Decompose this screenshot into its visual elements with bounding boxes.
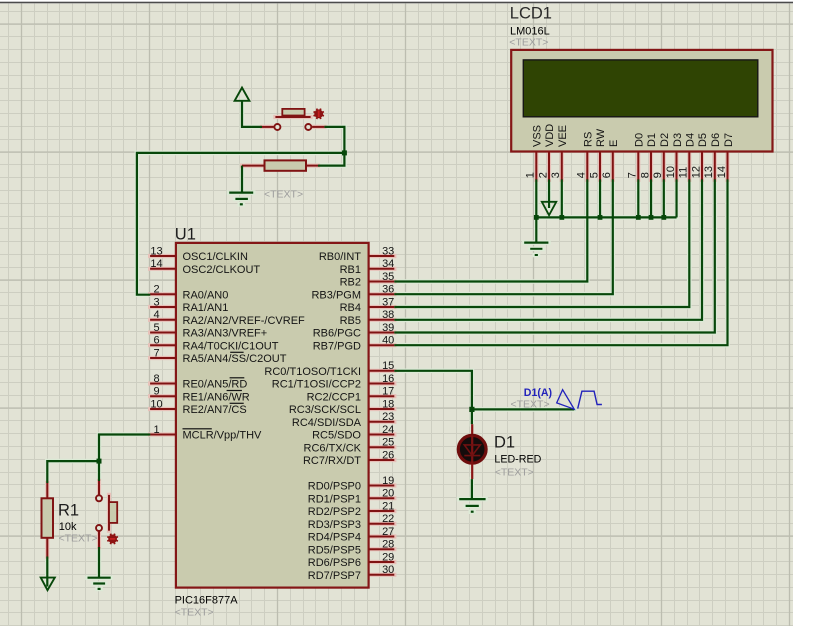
LCD pin 6 (E) stub [612, 152, 614, 180]
LCD pin 12 (D5) stub [701, 152, 703, 180]
wire: ground bus under LCD [536, 216, 676, 218]
svg-text:10: 10 [665, 166, 677, 178]
svg-text:RA5/AN4/SS/C2OUT: RA5/AN4/SS/C2OUT [183, 353, 287, 365]
push button (reset) red actuator dot [108, 535, 117, 544]
junction bus/D2 [661, 215, 666, 220]
svg-text:12: 12 [690, 166, 702, 178]
U1 pin 30 stub (right, RD7/PSP7) [369, 574, 395, 576]
svg-text:1: 1 [153, 424, 159, 436]
U1 pin 25 stub (right, RC6/TX/CK) [369, 446, 395, 448]
svg-text:RD7/PSP7: RD7/PSP7 [308, 570, 361, 582]
ground under top resistor [229, 192, 253, 194]
svg-text:RB6/PGC: RB6/PGC [313, 328, 361, 340]
wire: RB3 to LCD E [394, 179, 613, 294]
U1 pin 16 stub (right, RC1/T1OSI/CCP2) [369, 383, 395, 385]
svg-text:RA2/AN2/VREF-/CVREF: RA2/AN2/VREF-/CVREF [183, 315, 306, 327]
junction bus/D1 [649, 215, 654, 220]
voltage probe needle [557, 390, 575, 410]
svg-text:RE2/AN7/CS: RE2/AN7/CS [183, 404, 247, 416]
power terminal +V (top) [235, 88, 250, 101]
wire: node down to resistor right [318, 153, 344, 166]
svg-text:26: 26 [382, 449, 394, 461]
U1 pin 2 stub (left, RA0/AN0) [150, 293, 175, 295]
U1 pin 35 stub (right, RB2) [369, 281, 395, 283]
svg-text:14: 14 [150, 258, 162, 270]
svg-text:OSC2/CLKOUT: OSC2/CLKOUT [183, 264, 261, 276]
junction bus/VEE [559, 215, 564, 220]
svg-text:15: 15 [382, 360, 394, 372]
svg-text:RB7/PGD: RB7/PGD [313, 340, 361, 352]
svg-text:6: 6 [153, 335, 159, 347]
junction LED node [469, 407, 474, 412]
svg-text:13: 13 [703, 166, 715, 178]
U1 pin 36 stub (right, RB3/PGM) [369, 293, 395, 295]
LCD pin 14 (D7) stub [727, 152, 729, 180]
svg-text:9: 9 [652, 172, 664, 178]
wire: node to probe [472, 408, 574, 410]
U1 pin 15 stub (right, RC0/T1OSO/T1CKI) [369, 370, 395, 372]
svg-text:RS: RS [583, 132, 595, 147]
svg-text:RA3/AN3/VREF+: RA3/AN3/VREF+ [183, 328, 268, 340]
LED D1 anode lead [471, 424, 473, 436]
U1 pin 6 stub (left, RA4/T0CKI/C1OUT) [150, 344, 175, 346]
wire: LCD D1 down to bus [650, 179, 652, 217]
svg-text:3: 3 [550, 172, 562, 178]
U1 pin 5 stub (left, RA3/AN3/VREF+) [150, 332, 175, 334]
ground under button2 [88, 577, 111, 579]
svg-text:MCLR/Vpp/THV: MCLR/Vpp/THV [183, 430, 263, 442]
U1 pin 39 stub (right, RB6/PGC) [369, 332, 395, 334]
svg-text:RD2/PSP2: RD2/PSP2 [308, 506, 361, 518]
svg-text:RA0/AN0: RA0/AN0 [183, 289, 229, 301]
U1 pin 4 stub (left, RA2/AN2/VREF-/CVREF) [150, 319, 175, 321]
svg-text:10: 10 [150, 398, 162, 410]
svg-text:D4: D4 [685, 133, 697, 147]
svg-text:25: 25 [382, 437, 394, 449]
LED D1 internal symbol [471, 436, 473, 464]
svg-text:2: 2 [537, 172, 549, 178]
svg-text:RA1/AN1: RA1/AN1 [183, 302, 229, 314]
svg-text:RC3/SCK/SCL: RC3/SCK/SCL [289, 404, 361, 416]
U1 pin 23 stub (right, RC4/SDI/SDA) [369, 421, 395, 423]
wire: LED to ground [471, 479, 473, 498]
LED D1 body [458, 435, 486, 463]
top sheet edge [0, 2, 793, 4]
wire glow layer [47, 100, 727, 589]
wire: RC0 to LED node [394, 371, 472, 410]
wire: node across to RA0 riser [137, 153, 345, 295]
U1 pin 33 stub (right, RB0/INT) [369, 255, 395, 257]
svg-text:<TEXT>: <TEXT> [495, 467, 534, 479]
svg-text:D7: D7 [723, 133, 735, 147]
resistor (top) body [265, 160, 307, 170]
button2 bottom pin stub [98, 531, 100, 547]
wire: LCD D0 down to bus [637, 179, 639, 217]
wire: RB7 to LCD D7 [394, 179, 727, 345]
svg-text:RW: RW [595, 128, 607, 147]
wire: button2 to ground [98, 547, 100, 577]
svg-text:RC1/T1OSI/CCP2: RC1/T1OSI/CCP2 [272, 379, 361, 391]
svg-text:RE0/AN5/RD: RE0/AN5/RD [183, 379, 248, 391]
U1 pin 17 stub (right, RC2/CCP1) [369, 395, 395, 397]
U1 pin 28 stub (right, RD5/PSP5) [369, 548, 395, 550]
wire: LCD VSS down to ground bus [535, 179, 537, 217]
svg-text:34: 34 [382, 258, 394, 270]
svg-text:VEE: VEE [557, 125, 569, 147]
svg-text:RB4: RB4 [340, 302, 361, 314]
junction bus/VSS [534, 215, 539, 220]
svg-text:VSS: VSS [532, 125, 544, 147]
svg-text:RD6/PSP6: RD6/PSP6 [308, 557, 361, 569]
button1 left pin stub [262, 126, 274, 128]
svg-text:RB3/PGM: RB3/PGM [311, 289, 361, 301]
U1 pin 34 stub (right, RB1) [369, 268, 395, 270]
ground terminal (arrow) under R1 [41, 578, 55, 591]
push button (reset) bottom contact [96, 525, 102, 531]
svg-text:17: 17 [382, 386, 394, 398]
svg-text:2: 2 [153, 284, 159, 296]
push button (top) actuator bar [275, 116, 310, 118]
svg-text:LED-RED: LED-RED [494, 453, 541, 465]
junction node (344,153) [342, 150, 347, 155]
svg-text:23: 23 [382, 411, 394, 423]
svg-text:D0: D0 [634, 133, 646, 147]
overline for CS [230, 403, 244, 404]
wire: node down to button2 [98, 461, 100, 481]
svg-text:U1: U1 [175, 225, 196, 243]
overline for RD [230, 377, 245, 378]
button1 right pin stub [312, 126, 324, 128]
overline for SS [230, 352, 243, 353]
junction bus/RW [598, 215, 603, 220]
wire: LCD VEE down to bus [561, 179, 563, 217]
svg-text:<TEXT>: <TEXT> [509, 36, 548, 48]
wire: RB2 to LCD RS [394, 179, 587, 281]
LCD pin 2 (VDD) stub [548, 152, 550, 180]
svg-text:9: 9 [153, 386, 159, 398]
svg-text:RC2/CCP1: RC2/CCP1 [307, 391, 361, 403]
resistor (top) right lead [306, 165, 318, 167]
LCD pin 13 (D6) stub [714, 152, 716, 180]
svg-text:22: 22 [382, 513, 394, 525]
button2 top pin stub [98, 481, 100, 495]
LCD pin 8 (D1) stub [650, 152, 652, 180]
U1 pin 40 stub (right, RB7/PGD) [369, 344, 395, 346]
wire: R1 bottom to ground arrow [46, 557, 48, 587]
U1 pin 38 stub (right, RB5) [369, 319, 395, 321]
svg-text:38: 38 [382, 309, 394, 321]
U1 pin 24 stub (right, RC5/SDO) [369, 434, 395, 436]
svg-text:R1: R1 [58, 501, 79, 519]
svg-text:6: 6 [601, 172, 613, 178]
svg-text:RD5/PSP5: RD5/PSP5 [308, 545, 361, 557]
wire: LCD RW down to bus [599, 179, 601, 217]
LCD pin 4 (RS) stub [586, 152, 588, 180]
U1 pin 7 stub (left, RA5/AN4/SS/C2OUT) [150, 357, 175, 359]
wire: LCD D3 down to bus [675, 179, 677, 217]
svg-text:29: 29 [382, 551, 394, 563]
svg-text:3: 3 [153, 296, 159, 308]
svg-text:D3: D3 [672, 133, 684, 147]
svg-text:<TEXT>: <TEXT> [175, 607, 214, 619]
U1 pin 22 stub (right, RD3/PSP3) [369, 523, 395, 525]
U1 pin 20 stub (right, RD1/PSP1) [369, 497, 395, 499]
svg-text:28: 28 [382, 539, 394, 551]
svg-text:<TEXT>: <TEXT> [59, 533, 98, 545]
svg-text:D1: D1 [494, 433, 515, 451]
svg-text:5: 5 [588, 172, 600, 178]
U1 pin 8 stub (left, RE0/AN5/RD) [150, 383, 175, 385]
svg-text:<TEXT>: <TEXT> [511, 399, 550, 411]
svg-text:13: 13 [150, 245, 162, 257]
LCD pin 9 (D2) stub [663, 152, 665, 180]
push button (top) left contact [274, 124, 280, 130]
push button (top) right contact [305, 124, 311, 130]
wire: node left to R1 top [47, 461, 99, 483]
U1 pin 3 stub (left, RA1/AN1) [150, 306, 175, 308]
push button (reset) top contact [96, 495, 102, 501]
U1 pin 9 stub (left, RE1/AN6/WR) [150, 395, 175, 397]
svg-text:RB1: RB1 [340, 264, 361, 276]
U1 pin 21 stub (right, RD2/PSP2) [369, 510, 395, 512]
U1 pin 14 stub (left, OSC2/CLKOUT) [150, 268, 175, 270]
svg-text:40: 40 [382, 335, 394, 347]
junction MCLR node [97, 459, 102, 464]
svg-text:RD1/PSP1: RD1/PSP1 [308, 493, 361, 505]
svg-text:RB5: RB5 [340, 315, 361, 327]
svg-text:14: 14 [716, 166, 728, 178]
svg-text:RB2: RB2 [340, 277, 361, 289]
svg-text:VDD: VDD [544, 124, 556, 147]
push button (top) red actuator dot [314, 109, 323, 118]
overline for WR [227, 390, 242, 391]
wire: LCD VDD to power terminal [548, 179, 550, 208]
LCD display LCD1 body [511, 50, 772, 152]
power terminal (down) on VDD [542, 202, 557, 215]
wire: LCD D2 down to bus [663, 179, 665, 217]
svg-text:19: 19 [382, 475, 394, 487]
svg-text:30: 30 [382, 564, 394, 576]
pin glow layer [47, 117, 727, 575]
LCD pin 7 (D0) stub [637, 152, 639, 180]
svg-text:RB0/INT: RB0/INT [319, 251, 361, 263]
svg-text:LCD1: LCD1 [510, 5, 552, 23]
LCD pin 10 (D3) stub [676, 152, 678, 180]
microcontroller U1 body [176, 243, 369, 588]
svg-text:RA4/T0CKI/C1OUT: RA4/T0CKI/C1OUT [183, 340, 279, 352]
svg-text:8: 8 [153, 373, 159, 385]
svg-text:8: 8 [639, 172, 651, 178]
LED D1 cathode lead [471, 464, 473, 480]
svg-text:7: 7 [153, 347, 159, 359]
svg-text:RC0/T1OSO/T1CKI: RC0/T1OSO/T1CKI [264, 366, 361, 378]
wire: node down to LED anode [471, 409, 473, 424]
U1 pin 27 stub (right, RD4/PSP4) [369, 536, 395, 538]
svg-text:18: 18 [382, 398, 394, 410]
svg-text:37: 37 [382, 296, 394, 308]
svg-text:7: 7 [627, 172, 639, 178]
svg-text:PIC16F877A: PIC16F877A [175, 595, 239, 607]
LCD screen [523, 60, 758, 117]
resistor (top) left lead [242, 165, 265, 167]
wire: RB4 to LCD D4 [394, 179, 689, 307]
svg-text:1: 1 [525, 172, 537, 178]
push button (top) cap [282, 109, 304, 116]
svg-text:21: 21 [382, 500, 394, 512]
U1 pin 18 stub (right, RC3/SCK/SCL) [369, 408, 395, 410]
U1 pin 26 stub (right, RC7/RX/DT) [369, 459, 395, 461]
svg-text:4: 4 [576, 172, 588, 178]
U1 pin 10 stub (left, RE2/AN7/CS) [150, 408, 175, 410]
resistor R1 bottom lead [46, 538, 48, 557]
LCD pin 1 (VSS) stub [535, 152, 537, 180]
U1 pin 29 stub (right, RD6/PSP6) [369, 561, 395, 563]
svg-text:E: E [608, 140, 620, 147]
svg-text:D1: D1 [646, 133, 658, 147]
svg-text:4: 4 [153, 309, 159, 321]
wire: button right down to node [324, 127, 344, 153]
svg-text:35: 35 [382, 271, 394, 283]
ground under LCD bus [535, 217, 537, 242]
U1 pin 37 stub (right, RB4) [369, 306, 395, 308]
ground under LED [459, 498, 485, 500]
push button (reset) actuator bar [108, 495, 110, 531]
U1 pin 13 stub (left, OSC1/CLKIN) [150, 255, 175, 257]
wire: power to button left [242, 100, 262, 127]
wire: MCLR net [99, 435, 150, 462]
LCD pin 5 (RW) stub [599, 152, 601, 180]
svg-text:11: 11 [678, 167, 690, 178]
svg-text:OSC1/CLKIN: OSC1/CLKIN [183, 251, 248, 263]
push button (reset) cap [109, 502, 117, 523]
svg-text:RC6/TX/CK: RC6/TX/CK [304, 442, 362, 454]
LCD pin 11 (D4) stub [688, 152, 690, 180]
svg-text:D2: D2 [659, 133, 671, 147]
LCD pin 3 (VEE) stub [561, 152, 563, 180]
svg-text:RD0/PSP0: RD0/PSP0 [308, 481, 361, 493]
svg-text:27: 27 [382, 526, 394, 538]
svg-text:16: 16 [382, 373, 394, 385]
svg-text:20: 20 [382, 488, 394, 500]
svg-text:24: 24 [382, 424, 394, 436]
svg-text:D1(A): D1(A) [524, 387, 552, 399]
svg-text:RC5/SDO: RC5/SDO [312, 430, 361, 442]
junction bus/D0 [636, 215, 641, 220]
wire: RB6 to LCD D6 [394, 179, 715, 332]
wire: resistor left to ground [241, 166, 243, 192]
svg-text:D5: D5 [697, 133, 709, 147]
resistor R1 body [42, 498, 54, 538]
overline for MCLR [183, 428, 212, 429]
probe waveform glyph [578, 391, 602, 408]
svg-text:36: 36 [382, 284, 394, 296]
svg-text:RD4/PSP4: RD4/PSP4 [308, 532, 361, 544]
svg-text:39: 39 [382, 322, 394, 334]
svg-text:RD3/PSP3: RD3/PSP3 [308, 519, 361, 531]
svg-text:5: 5 [153, 322, 159, 334]
svg-text:10k: 10k [59, 521, 77, 533]
svg-text:<TEXT>: <TEXT> [264, 188, 303, 200]
svg-text:RE1/AN6/WR: RE1/AN6/WR [183, 391, 250, 403]
svg-text:D6: D6 [710, 133, 722, 147]
resistor R1 top lead [46, 483, 48, 498]
wire: RB5 to LCD D5 [394, 179, 702, 319]
U1 pin 1 stub (left, MCLR/Vpp/THV) [150, 434, 175, 436]
U1 pin 19 stub (right, RD0/PSP0) [369, 485, 395, 487]
svg-text:RC7/RX/DT: RC7/RX/DT [303, 455, 361, 467]
svg-text:33: 33 [382, 245, 394, 257]
svg-text:RC4/SDI/SDA: RC4/SDI/SDA [292, 417, 362, 429]
